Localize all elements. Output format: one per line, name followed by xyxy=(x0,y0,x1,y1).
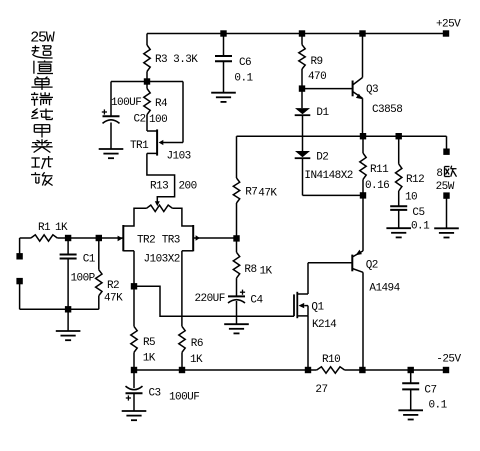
svg-text:C3: C3 xyxy=(149,388,161,400)
svg-text:R1: R1 xyxy=(38,222,51,234)
transistor Q2 A1494 PNP xyxy=(352,250,400,370)
node R6/bottom rail xyxy=(179,367,185,373)
wire TR1 source to R13 wiper xyxy=(147,153,175,202)
wire C4 to ground xyxy=(236,301,238,324)
resistor R11 0.16 xyxy=(360,136,389,195)
resistor R13 200 trimmer xyxy=(147,181,197,212)
label title char chun xyxy=(31,109,53,120)
svg-text:R8: R8 xyxy=(244,264,256,276)
svg-text:J103X2: J103X2 xyxy=(144,253,180,265)
svg-text:100: 100 xyxy=(149,114,167,126)
capacitor C7 0.1 xyxy=(402,370,447,412)
svg-text:C2: C2 xyxy=(134,114,146,126)
ground C5 xyxy=(386,228,411,237)
svg-text:Q2: Q2 xyxy=(366,260,378,272)
svg-text:1K: 1K xyxy=(143,353,156,365)
svg-text:0.1: 0.1 xyxy=(234,72,253,84)
svg-text:0.1: 0.1 xyxy=(429,400,448,412)
wire input ground down xyxy=(19,284,21,309)
capacitor C4 220UF electrolytic xyxy=(195,278,264,307)
transistor TR1 J103 JFET xyxy=(130,129,191,162)
ground speaker xyxy=(434,228,459,237)
svg-text:D1: D1 xyxy=(316,107,329,119)
svg-text:100UF: 100UF xyxy=(169,392,199,404)
svg-text:R10: R10 xyxy=(322,354,340,366)
transistor TR2 J103 JFET xyxy=(118,225,156,251)
transistor Q1 K214 MOSFET xyxy=(294,263,337,370)
wire R5 to rail xyxy=(133,352,135,370)
svg-text:0.16: 0.16 xyxy=(365,180,389,192)
svg-text:C3858: C3858 xyxy=(372,104,402,116)
ground C4 xyxy=(224,324,249,333)
svg-text:-25V: -25V xyxy=(436,353,461,365)
svg-text:C4: C4 xyxy=(250,295,263,307)
diode D2 IN4148 xyxy=(295,151,353,182)
resistor R8 1K xyxy=(233,252,272,278)
node R1/C1 junction xyxy=(65,235,71,241)
svg-text:R9: R9 xyxy=(311,56,323,68)
wire to Q3 base xyxy=(302,88,353,90)
node Q3 emitter/R11 junction xyxy=(360,133,366,139)
wire R9 to D1 xyxy=(301,69,303,108)
svg-text:47K: 47K xyxy=(258,188,277,200)
svg-text:C6: C6 xyxy=(239,57,251,69)
node bottom/C1 junction xyxy=(65,306,71,312)
label title char chao xyxy=(31,45,52,58)
wire R13 right to TR3 drain xyxy=(173,208,193,226)
wire +25V top rail xyxy=(147,33,446,35)
wire junction to C2 xyxy=(111,82,147,117)
svg-text:R7: R7 xyxy=(245,187,257,199)
svg-text:100P: 100P xyxy=(71,273,96,285)
ground C7 xyxy=(398,410,423,419)
resistor R12 10 xyxy=(396,136,425,203)
wire R11 node to Q2 xyxy=(362,195,364,251)
svg-text:R12: R12 xyxy=(406,174,424,186)
label title char zhi xyxy=(34,60,53,73)
wiper arrow R13 xyxy=(155,201,160,206)
wire C3 to ground xyxy=(133,393,135,411)
transistor Q3 C3858 NPN xyxy=(353,34,403,137)
resistor R10 27 xyxy=(315,354,344,396)
wire bottom rail right xyxy=(345,369,446,371)
wire R6 to rail xyxy=(181,352,183,370)
svg-text:+25V: +25V xyxy=(436,19,461,31)
svg-text:1K: 1K xyxy=(260,265,273,277)
ground C2 xyxy=(99,149,124,158)
svg-text:25W: 25W xyxy=(30,30,55,47)
svg-text:47K: 47K xyxy=(104,293,123,305)
terminal -25V xyxy=(436,353,461,373)
terminal input signal xyxy=(16,253,22,259)
svg-text:0.1: 0.1 xyxy=(411,221,430,233)
resistor R3 xyxy=(144,45,199,72)
terminal input ground xyxy=(16,278,22,284)
resistor R6 1K xyxy=(179,326,203,366)
svg-text:K214: K214 xyxy=(312,319,337,331)
svg-text:8: 8 xyxy=(436,168,442,180)
label title char duan xyxy=(31,92,53,106)
node R12 junction xyxy=(396,133,402,139)
svg-text:1K: 1K xyxy=(55,222,68,234)
wire R13 left to TR2 drain xyxy=(124,208,147,226)
label title 25W xyxy=(30,30,55,47)
svg-text:C7: C7 xyxy=(424,384,436,396)
label title char dan xyxy=(31,77,52,90)
svg-text:25W: 25W xyxy=(436,181,455,193)
svg-text:C5: C5 xyxy=(412,207,424,219)
resistor R9 470 xyxy=(299,34,326,84)
label title char jia xyxy=(34,125,49,138)
wire D2 to R11 bottom node xyxy=(303,158,364,195)
wire speaker to ground xyxy=(446,196,448,229)
wire feedback to Q1 gate xyxy=(134,286,294,316)
svg-text:R2: R2 xyxy=(107,280,119,292)
label title char lei xyxy=(31,139,52,152)
svg-text:27: 27 xyxy=(315,384,327,396)
svg-text:R6: R6 xyxy=(191,338,203,350)
node Q2 collector/rail xyxy=(359,367,365,373)
node top-rail/C6 junction xyxy=(220,30,226,36)
wire R4 to TR1 drain xyxy=(147,115,157,131)
capacitor C2 100UF electrolytic xyxy=(102,97,146,126)
wire rail to speaker xyxy=(446,136,448,152)
wire R7 to TR3 gate node xyxy=(236,203,238,252)
node top-rail/Q3 collector junction xyxy=(359,30,365,36)
wire output rail xyxy=(237,135,447,137)
svg-text:Q1: Q1 xyxy=(311,302,324,314)
ground input xyxy=(56,331,81,340)
svg-text:TR1: TR1 xyxy=(130,140,149,152)
label title char gong xyxy=(31,156,53,169)
wire R1 to TR2 gate xyxy=(57,237,123,239)
wire input bottom xyxy=(20,308,99,310)
svg-text:470: 470 xyxy=(308,71,326,83)
terminal speaker - xyxy=(443,192,449,198)
ground C6 xyxy=(211,93,236,102)
capacitor C3 100UF electrolytic xyxy=(126,370,200,404)
resistor R7 47K xyxy=(233,178,277,203)
terminal speaker + xyxy=(443,149,449,155)
wire C2 to ground xyxy=(110,123,112,150)
wire input to R1 xyxy=(20,237,31,239)
svg-text:R5: R5 xyxy=(143,337,155,349)
svg-text:200: 200 xyxy=(179,181,197,193)
node C7/rail xyxy=(408,367,414,373)
resistor R5 1K xyxy=(131,326,156,364)
node top-rail/R9 junction xyxy=(299,30,305,36)
wire C1 to ground xyxy=(67,309,69,331)
resistor R2 47K xyxy=(96,238,124,309)
wire Q1 drain to Q2 base xyxy=(308,262,352,264)
node R3/R4/C2 junction xyxy=(144,78,150,84)
svg-text:R4: R4 xyxy=(155,98,168,110)
svg-text:J103: J103 xyxy=(167,151,191,163)
capacitor C5 0.1 xyxy=(390,191,430,233)
svg-text:10: 10 xyxy=(405,192,417,204)
capacitor C6 0.1 xyxy=(215,34,254,93)
svg-text:TR2: TR2 xyxy=(137,234,155,246)
ground C3 xyxy=(122,411,147,420)
node Q1 source/rail xyxy=(305,367,311,373)
wire TR3 gate xyxy=(193,237,236,239)
capacitor C1 100P xyxy=(60,238,96,309)
svg-text:TR3: TR3 xyxy=(162,234,180,246)
node C1/R2 junction xyxy=(96,235,102,241)
diode D1 IN4148 xyxy=(295,107,330,119)
label title char fang xyxy=(31,172,53,185)
svg-text:R11: R11 xyxy=(370,164,389,176)
svg-text:C1: C1 xyxy=(83,254,96,266)
svg-text:1K: 1K xyxy=(190,354,203,366)
wire junction to TR1 gate xyxy=(147,82,183,143)
wire rail to R7 xyxy=(236,136,238,178)
node R11/D2/Q2 junction xyxy=(360,192,366,198)
wire D1 to D2 xyxy=(302,115,304,151)
label J103X2 xyxy=(144,253,180,265)
wire bottom rail left xyxy=(134,369,317,371)
svg-text:220UF: 220UF xyxy=(195,293,225,305)
svg-text:100UF: 100UF xyxy=(111,97,141,109)
svg-text:IN4148X2: IN4148X2 xyxy=(304,170,352,182)
label speaker 8 ohm 25W xyxy=(436,166,457,193)
node TR2 source/feedback junction xyxy=(131,283,137,289)
wire R3 to node xyxy=(146,72,148,89)
wire TR2 source down xyxy=(133,251,135,327)
transistor TR3 J103 JFET xyxy=(162,225,200,251)
wire input down xyxy=(19,238,21,254)
terminal +25V xyxy=(436,19,461,37)
svg-text:A1494: A1494 xyxy=(369,283,400,295)
resistor R4 xyxy=(144,89,168,127)
node R5/bottom rail xyxy=(131,367,137,373)
resistor R1 1K xyxy=(31,222,68,241)
svg-text:R3 3.3K: R3 3.3K xyxy=(155,54,198,66)
svg-text:D2: D2 xyxy=(316,152,328,164)
svg-text:Q3: Q3 xyxy=(366,84,378,96)
wire top rail to R3 xyxy=(146,34,148,46)
wire TR3 source down xyxy=(181,251,183,327)
node R9/Q3 base junction xyxy=(299,85,305,91)
node TR3 gate/R7/R8 junction xyxy=(233,235,239,241)
svg-text:R13: R13 xyxy=(150,181,168,193)
